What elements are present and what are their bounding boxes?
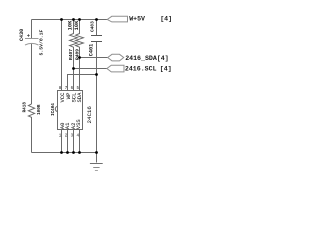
svg-text:2416_SDA[4]: 2416_SDA[4] [125, 55, 169, 62]
svg-text:[4]: [4] [160, 66, 172, 73]
svg-text:C401: C401 [89, 44, 95, 56]
svg-text:R407: R407 [68, 49, 74, 60]
svg-text:24C16: 24C16 [86, 106, 93, 124]
svg-text:R409: R409 [74, 49, 80, 60]
svg-text:C430: C430 [19, 29, 25, 41]
svg-text:IC404: IC404 [51, 103, 56, 116]
svg-text:10K: 10K [68, 20, 74, 30]
svg-text:SDA: SDA [76, 92, 83, 103]
svg-text:[4]: [4] [160, 15, 172, 22]
svg-text:VSS: VSS [75, 119, 82, 130]
svg-text:C403: C403 [89, 21, 95, 32]
svg-text:5.5V/0.1F: 5.5V/0.1F [38, 29, 44, 55]
svg-text:R418: R418 [23, 102, 28, 113]
svg-text:2416.SCL: 2416.SCL [125, 66, 157, 73]
svg-text:10K: 10K [74, 20, 80, 30]
svg-text:W+5V: W+5V [129, 15, 145, 22]
svg-text:100R: 100R [37, 104, 42, 115]
